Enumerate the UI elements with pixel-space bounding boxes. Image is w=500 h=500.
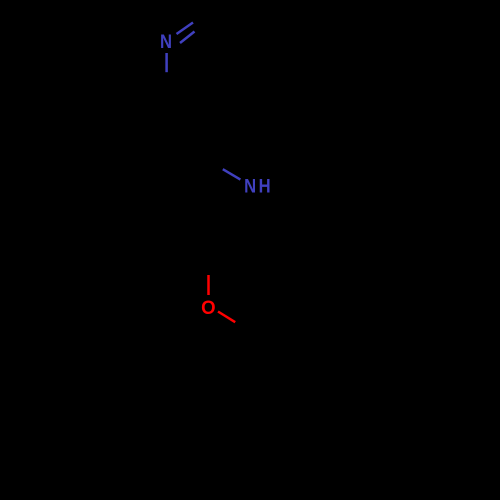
bond N1-C6 vertical (blue half) (165, 53, 168, 72)
svg-text:O: O (201, 298, 216, 320)
bond C-O vertical (red half) (207, 275, 210, 295)
bond C-NH (blue half) (223, 169, 241, 179)
svg-text:N: N (160, 30, 172, 53)
svg-text:H: H (259, 174, 271, 197)
bond N1=C2 main line (blue half) (177, 23, 194, 35)
svg-text:N: N (244, 174, 256, 197)
bond O-CH2 diagonal (red half) (218, 312, 235, 323)
bond N1=C2 inner double line (blue half) (180, 32, 195, 44)
